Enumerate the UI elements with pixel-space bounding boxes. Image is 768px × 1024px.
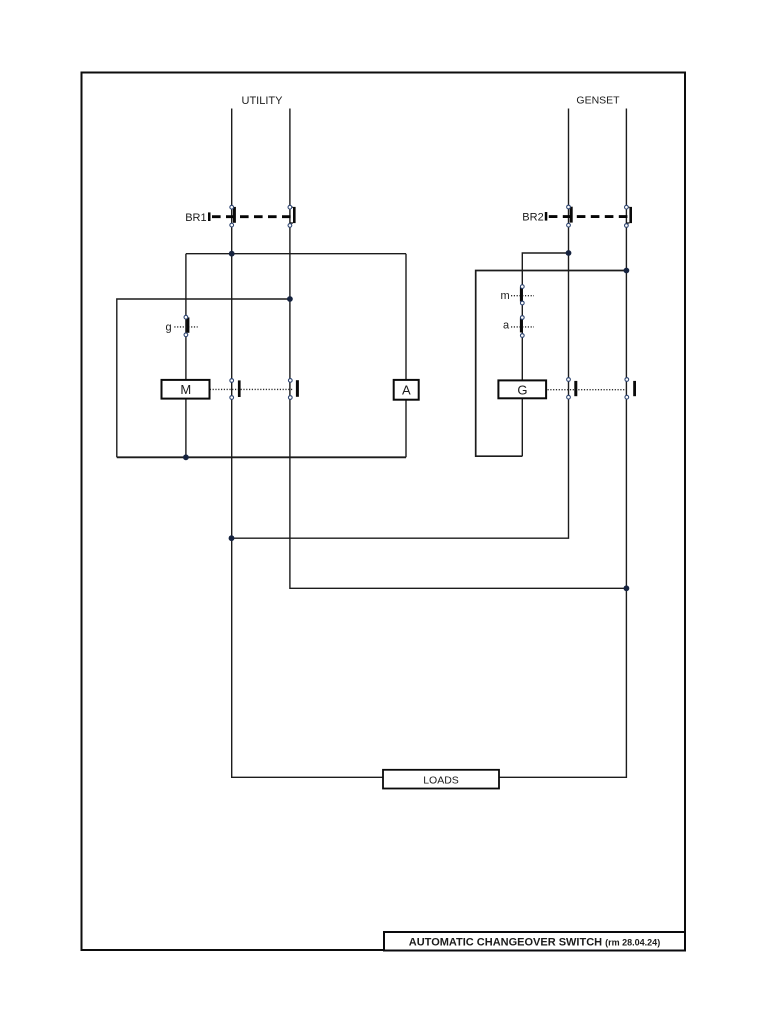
wire: UTILITY L1 feeder down through BR1 and M contact to LOADS xyxy=(232,109,383,778)
breaker BR1 pole L2 xyxy=(288,205,296,227)
auxiliary contact g (genset-available interlock) xyxy=(166,315,198,336)
svg-text:a: a xyxy=(503,320,510,332)
svg-text:BR2: BR2 xyxy=(522,211,543,223)
wire: top horizontal of M control loop xyxy=(186,253,406,255)
junction: GENSET L1 tap to G control branch xyxy=(566,250,572,256)
title block xyxy=(384,932,685,951)
wire: UTILITY L2 feeder down through BR1 and M contact, crossover to genset side xyxy=(290,109,627,589)
contactor G main contact L2 xyxy=(625,378,636,399)
svg-text:LOADS: LOADS xyxy=(423,774,459,786)
coil G (genset contactor coil) xyxy=(498,380,626,398)
breaker BR1 xyxy=(185,212,291,224)
auxiliary contact a (auto mode) xyxy=(503,316,534,338)
svg-text:AUTOMATIC CHANGEOVER SWITCH (r: AUTOMATIC CHANGEOVER SWITCH (rm 28.04.24… xyxy=(409,936,660,948)
svg-text:m: m xyxy=(501,290,510,302)
breaker BR2 pole L2 xyxy=(625,205,632,227)
junction: GENSET L2 tap to G control loop xyxy=(624,268,630,274)
wire: A coil branch vertical xyxy=(405,254,407,458)
wire: M control branch vertical through g contact and M coil xyxy=(185,254,187,458)
svg-text:G: G xyxy=(517,382,527,397)
junction: M coil branch to bottom of control loop xyxy=(183,454,189,460)
wire: second horizontal of M control loop with left branch xyxy=(117,299,290,457)
contactor G main contact L1 xyxy=(567,378,578,399)
wire: GENSET L2 feeder down through BR2 and G contact to LOADS xyxy=(499,109,626,778)
coil M (mains contactor coil) xyxy=(162,380,293,399)
wire: G control branch through m and a contacts and G coil xyxy=(522,253,568,456)
contactor M main contact L2 xyxy=(288,379,298,400)
contactor M main contact L1 xyxy=(230,379,241,400)
svg-text:A: A xyxy=(402,383,411,398)
wire: G control loop left branch xyxy=(476,271,627,457)
wire: bottom horizontal of M control loop xyxy=(117,456,406,458)
junction: utility/genset L2 tie to LOADS xyxy=(624,585,630,591)
coil A (alarm / aux relay) xyxy=(394,380,419,400)
breaker BR1 pole L1 xyxy=(230,205,236,227)
breaker BR2 xyxy=(522,211,627,223)
svg-text:g: g xyxy=(166,322,172,334)
junction: UTILITY L2 tap to M control loop xyxy=(287,296,293,302)
svg-text:GENSET: GENSET xyxy=(576,95,620,107)
breaker BR2 pole L1 xyxy=(567,205,573,227)
junction: UTILITY L1 tap to M control loop xyxy=(229,251,235,257)
junction: utility/genset L1 tie to LOADS xyxy=(229,535,235,541)
svg-text:UTILITY: UTILITY xyxy=(242,95,284,107)
svg-text:M: M xyxy=(180,382,191,397)
svg-text:BR1: BR1 xyxy=(185,212,206,224)
block LOADS xyxy=(383,770,499,789)
auxiliary contact m (mains interlock) xyxy=(501,285,535,305)
wire: GENSET L1 feeder down through BR2 and G contact, crossover to utility side xyxy=(232,109,569,539)
